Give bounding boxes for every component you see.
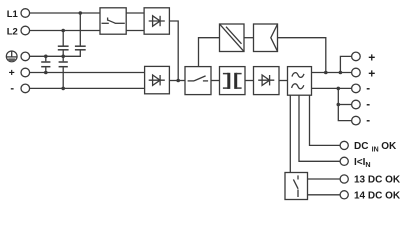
terminal DC input plus [21, 68, 30, 77]
wire U1 output down to node [169, 21, 178, 81]
svg-text:-: - [366, 115, 370, 127]
capacitor C4 PE to minus [59, 56, 68, 88]
junction PE cap3 [44, 55, 48, 59]
wire buffer output to plus bus [278, 38, 326, 73]
wire relay to 13 terminal [308, 178, 341, 180]
junction minus cap4 [61, 87, 65, 91]
transformer T1 box [220, 67, 246, 95]
terminal L1 [21, 9, 30, 18]
junction PE cap1 [61, 55, 65, 59]
wire DC minus [30, 87, 145, 89]
junction L1 cap [79, 11, 83, 15]
wire filter to DC-IN terminal [310, 95, 341, 145]
junction minus branch [337, 87, 341, 91]
svg-text:13 DC OK: 13 DC OK [354, 175, 401, 186]
DC-DC converter box [220, 24, 245, 52]
wire S1 top riser to DC-DC converter [199, 38, 220, 67]
wire S1 to transformer [211, 80, 220, 82]
relay K1 box [285, 173, 308, 200]
switch S1 box [185, 67, 211, 95]
svg-text:-: - [10, 82, 14, 94]
wire F1 to rectifier bottom [126, 30, 144, 32]
junction L2 cap [61, 29, 65, 33]
wire DC plus [30, 72, 145, 74]
wire relay to 14 terminal [308, 194, 341, 196]
junction rectifier node [176, 79, 180, 83]
diode D1 box [254, 67, 280, 95]
wire PE [30, 50, 81, 56]
terminal L2 [21, 26, 30, 35]
wire minus bus down [338, 88, 351, 120]
svg-text:+: + [368, 51, 375, 65]
svg-text:+: + [368, 67, 375, 81]
svg-text:14 DC OK: 14 DC OK [354, 191, 401, 202]
svg-text:-: - [366, 99, 370, 111]
wire filter to I-limit terminal [299, 95, 340, 161]
wire U2 output to node [169, 80, 185, 82]
wire L1 [30, 12, 100, 14]
wire filter to relay [289, 95, 291, 172]
PE earth symbol [6, 51, 17, 62]
terminal DC IN OK [340, 141, 348, 149]
wire diode to filter [279, 80, 288, 82]
capacitor C3 PE to plus [41, 56, 50, 72]
terminal out plus2 [352, 68, 361, 77]
terminal DC input minus [21, 84, 30, 93]
wire filter minus output [312, 87, 352, 89]
terminal out plus1 [352, 52, 361, 61]
junction buffer plus bus [324, 71, 328, 75]
terminal 14 DC OK [340, 191, 348, 199]
buffer module box [254, 24, 278, 52]
terminal out minus3 [352, 116, 361, 125]
circuit breaker F1 box [100, 8, 126, 34]
svg-text:-: - [366, 83, 370, 95]
rectifier U2 box [145, 66, 170, 93]
wire F1 to rectifier top [126, 12, 144, 14]
capacitor C1 L2 to PE [58, 31, 69, 57]
rectifier U1 box [144, 8, 169, 34]
wire minus mid to terminal [338, 104, 351, 106]
wire converter to buffer [244, 37, 254, 39]
svg-text:DCINOK: DCINOK [354, 141, 397, 153]
svg-text:L2: L2 [7, 27, 18, 38]
terminal I limit [340, 157, 348, 165]
junction minus mid [337, 103, 341, 107]
terminal out minus2 [352, 100, 361, 109]
capacitor C2 L1 to PE [75, 13, 86, 50]
wire transformer to diode [245, 80, 254, 82]
svg-text:L1: L1 [7, 9, 19, 20]
junction plus branch [339, 71, 343, 75]
wire filter plus output [312, 72, 352, 74]
terminal PE [21, 52, 30, 61]
terminal out minus1 [352, 84, 361, 93]
wire L2 [30, 30, 100, 32]
terminal 13 DC OK [340, 175, 348, 183]
wire branch to terminal plus1 [340, 56, 351, 72]
junction plus cap3 [44, 71, 48, 75]
svg-text:+: + [9, 67, 15, 79]
filter box [288, 67, 312, 96]
svg-text:I<IN: I<IN [354, 157, 371, 169]
